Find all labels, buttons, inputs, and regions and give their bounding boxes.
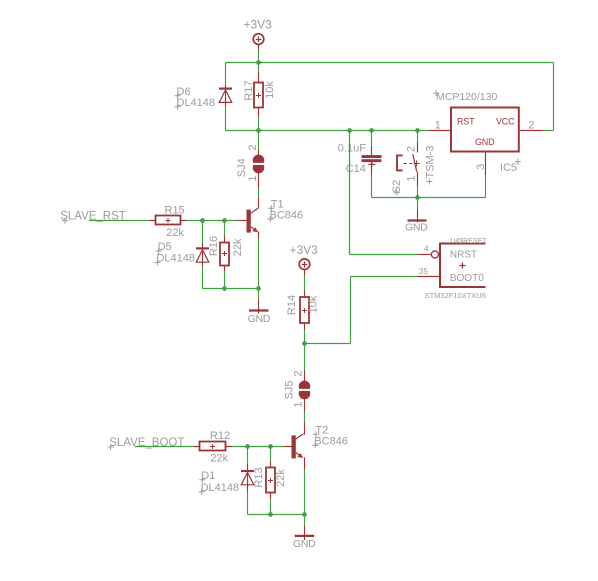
svg-text:GND: GND [293,538,316,550]
jumper SJ5 pads [299,381,311,400]
wire emitter rail T2 [248,514,305,516]
svg-text:NRST: NRST [450,250,477,261]
svg-text:2: 2 [406,146,418,152]
wire GND1 stub [258,289,260,300]
crosses D1 origins [199,477,205,483]
cross TSM-3 origin [426,179,432,185]
svg-text:0.1uF: 0.1uF [338,142,366,154]
switch S2 [396,154,419,171]
wire SLAVE_RST to R15 [89,220,150,222]
diode D5 pin line [202,243,204,266]
svg-text:SJ4: SJ4 [236,158,248,177]
crosses T1 origins [268,205,274,211]
svg-text:R17: R17 [243,80,255,100]
transistor T1 base pin [239,220,247,222]
cross IC5 origin [515,159,521,165]
jumper SJ4 pads [253,155,265,174]
ground GND2 pin stub [417,209,419,222]
resistor R17 pin stubs [258,72,260,117]
supply +3V3 no.1 symbol [253,34,264,45]
svg-text:1: 1 [406,175,418,181]
crosses D5 origins [156,248,162,254]
svg-text:2: 2 [247,144,259,150]
resistor R13 [266,468,275,493]
wire C14 bottom segment [371,175,373,198]
svg-text:3: 3 [475,164,487,170]
ground GND1 symbol [249,309,269,311]
IC4 pin 35 BOOT0 stub [418,276,439,278]
cross D6 origins [175,93,181,99]
junction base2 net / R13 [268,444,273,449]
diode D1 [241,471,254,485]
svg-text:GND: GND [405,222,428,234]
wire T2 emitter down [304,469,306,515]
junction base net / R16 [222,218,227,223]
svg-text:SLAVE_BOOT: SLAVE_BOOT [109,437,184,449]
svg-text:TSM-3: TSM-3 [425,146,437,179]
junction emitter2 net / R13 bottom [268,512,273,517]
wire S2 pin1 segment [417,186,419,198]
svg-text:22k: 22k [166,227,184,239]
jumper SJ5 pin stubs [304,371,306,412]
wire GND3 stub [304,515,306,526]
svg-text:RST: RST [457,117,475,127]
svg-text:10k: 10k [264,81,276,99]
junction base net / D5 [200,218,205,223]
svg-text:C14: C14 [346,163,366,175]
svg-text:22k: 22k [275,469,287,487]
wire right drop to VCC pin2 [553,63,555,131]
plus marker inside IC4 [460,263,466,269]
transistor T2 [292,434,304,459]
svg-text:+3V3: +3V3 [290,243,319,257]
junction emitter net / R16 bottom [222,286,227,291]
IC4 STM32 box outline [440,244,486,288]
junction mid rail / R17-SJ4 [256,128,261,133]
junction emitter net / GND1 [256,286,261,291]
wire S2 bottom rail [372,197,486,199]
wire R13 bottom segment [270,499,272,515]
svg-text:SJ5: SJ5 [284,381,296,400]
wire R17 top segment [258,63,260,73]
wire R16 bottom segment [224,271,226,289]
wire T1 emitter down [258,239,260,289]
wire R14 bottom to BOOT0 net [305,343,351,345]
svg-text:BC846: BC846 [314,436,348,448]
svg-text:BOOT0: BOOT0 [450,273,484,284]
crosses T2 origins [313,431,319,437]
svg-text:MCP120/130: MCP120/130 [436,91,497,103]
svg-text:2: 2 [528,120,534,132]
IC4 pin 4 NRST stub [418,254,432,256]
resistor R15 pin stubs [150,220,187,222]
transistor T2 base pin [284,446,292,448]
jumper SJ4 pin stubs [258,150,260,189]
diode D6 pin line [225,85,227,107]
cross SLAVE_BOOT origin [108,444,114,450]
svg-text:GND: GND [248,313,271,325]
svg-text:4: 4 [424,243,429,253]
wire D5 bottom segment [202,266,204,289]
svg-text:R16: R16 [208,236,220,256]
+3V3 no.2 pin stub [304,270,306,275]
wire SJ5 to T2 collector [304,412,306,423]
svg-text:R15: R15 [165,204,185,216]
wire BOOT0 net vertical [350,277,352,344]
svg-text:35: 35 [419,266,429,276]
junction top rail / R17 [256,60,261,65]
junction S2 bottom / GND2 [415,195,420,200]
wire SLAVE_BOOT to R12 [135,446,194,448]
junction emitter2 net / GND3 [302,512,307,517]
wire emitter rail T1 [203,288,259,290]
svg-text:DL4148: DL4148 [177,97,216,109]
wire stub to pin2 [543,130,554,132]
cross C14 origin [368,161,375,167]
wire R16 top segment [224,221,226,237]
transistor T2 emitter stub [304,457,306,469]
junction mid rail / S2 [415,128,420,133]
diode D1 pin line [247,464,249,493]
svg-text:1: 1 [292,401,304,407]
wire top +3V3 rail [226,62,554,64]
cross MCP origin [433,90,439,96]
wire R13 top segment [270,447,272,462]
svg-text:IC5: IC5 [500,162,517,174]
wire BOOT0 net horizontal [351,276,418,278]
svg-text:R12: R12 [210,430,230,442]
svg-text:STM32F10XTXU6: STM32F10XTXU6 [425,291,486,300]
resistor R16 pin stubs [224,236,226,271]
svg-text:SLAVE_RST: SLAVE_RST [60,211,126,223]
wire +3V3 no.1 stub [258,50,260,63]
resistor R13 pin stubs [270,461,272,499]
wire D6 upper segment [225,63,227,85]
junction mid rail / C14 [369,128,374,133]
wire R14 bottom segment [304,330,306,344]
svg-text:U4$RESET: U4$RESET [450,238,487,245]
wire NRST net vertical [349,131,351,255]
wire GND2 stub [417,198,419,210]
svg-text:R14: R14 [286,295,298,315]
IC5 pin 2 stub [520,130,543,132]
ground GND2 symbol [408,219,427,221]
capacitor C14 pin stubs [371,147,373,176]
resistor R14 [300,297,309,323]
wire R12 to T2 base [232,446,284,448]
junction base2 net / D1 [245,444,250,449]
svg-text:GND: GND [475,137,495,147]
switch S2 pin stubs [417,142,419,186]
IC5 MCP120/130 box [451,108,519,152]
cross S2 origin [394,190,400,196]
transistor T2 collector stub [304,423,306,435]
supply +3V3 no.2 symbol [299,259,310,270]
wire MCP pin3 segment [485,175,487,198]
IC5 pin 1 stub [429,130,450,132]
svg-text:DL4148: DL4148 [201,482,240,494]
junction mid rail / NRST branch [347,128,352,133]
wire R15 to T1 base [187,220,239,222]
diode D6 [219,89,232,103]
wire +3V3 no.2 stub [304,275,306,291]
svg-text:22k: 22k [232,238,244,256]
svg-text:DL4148: DL4148 [156,253,195,265]
diode D5 [196,248,209,262]
wire NRST net vertical overlay [349,131,351,255]
wire SJ5 top segment [304,344,306,371]
capacitor C14 plates [362,155,382,162]
wire SJ4 to T1 collector [258,189,260,198]
wire D1 bottom segment [247,492,249,515]
wire SJ4 top segment [258,131,260,151]
transistor T1 emitter stub [258,232,260,239]
wire D1 top segment [247,447,249,464]
IC4 pin 4 inversion bubble [431,251,438,258]
resistor R14 pin stubs [304,291,306,330]
svg-text:R13: R13 [253,467,265,487]
resistor R17 [254,83,263,108]
resistor R15 [156,216,181,225]
resistor R12 [200,442,226,451]
ground GND1 pin stub [258,300,260,314]
wire D6 lower segment [225,107,227,131]
svg-text:1: 1 [435,120,441,132]
transistor T1 [247,208,259,233]
transistor T1 collector stub [258,198,260,209]
svg-text:2: 2 [292,370,304,376]
+3V3 no.1 pin stub [258,45,260,50]
junction R14 bottom / SJ5 [302,341,307,346]
svg-text:BC846: BC846 [270,209,304,221]
svg-text:VCC: VCC [496,117,515,127]
ground GND3 pin stub [304,526,306,540]
wire D5 top segment [202,221,204,244]
wire NRST net horizontal [350,254,418,256]
svg-text:1: 1 [247,175,259,181]
wire R17 bottom segment [258,117,260,131]
wire mid rail to MCP pin1 [226,130,430,132]
wire C14 top segment [371,131,373,147]
IC5 pin 3 stub [485,153,487,176]
svg-text:+3V3: +3V3 [244,18,273,32]
resistor R16 [220,243,229,266]
svg-text:10k: 10k [308,295,320,313]
ground GND3 symbol [295,535,315,537]
cross SLAVE_RST origin [62,218,68,224]
wire S2 pin2 segment [417,131,419,142]
resistor R12 pin stubs [194,446,233,448]
svg-text:22k: 22k [210,453,228,465]
